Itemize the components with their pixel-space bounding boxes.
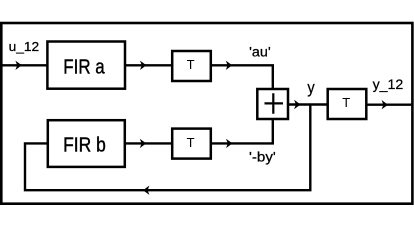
summer plus sign	[265, 93, 284, 114]
block T3 delay	[328, 89, 367, 119]
block T2 delay	[172, 129, 211, 159]
wire u input	[2, 64, 47, 66]
wire FIR b to T2	[125, 142, 172, 144]
block T1 delay	[172, 51, 211, 81]
svg-text:'au': 'au'	[249, 45, 271, 60]
wire FIR a to T1	[125, 64, 172, 66]
wire T2 to summer bottom	[211, 119, 273, 143]
feedback wire y to FIR b	[25, 105, 310, 191]
wire T1 to summer top	[211, 65, 273, 89]
arrow on T2 to summer wire	[226, 139, 232, 148]
svg-text:T: T	[187, 135, 195, 150]
summer box	[257, 89, 288, 119]
arrow on FIR a to T1 wire	[140, 61, 146, 70]
block FIR b	[48, 120, 125, 167]
arrow on FIR b to T2 wire	[140, 139, 146, 148]
outer frame	[1, 23, 412, 204]
svg-text:T: T	[342, 95, 350, 110]
svg-text:FIR a: FIR a	[63, 57, 105, 79]
block FIR a	[47, 42, 125, 89]
arrow on summer output wire	[294, 100, 300, 109]
arrow on u input wire	[15, 61, 21, 70]
svg-text:'-by': '-by'	[249, 149, 276, 165]
arrow on feedback bottom wire pointing left	[143, 186, 149, 195]
svg-text:T: T	[187, 57, 195, 72]
svg-text:y_12: y_12	[373, 76, 404, 92]
wire T3 to output	[366, 103, 411, 105]
arrow on T1 to summer wire	[226, 61, 232, 70]
wire summer to T3	[288, 103, 328, 105]
svg-text:u_12: u_12	[9, 39, 40, 54]
svg-text:y: y	[307, 78, 315, 97]
arrow on output wire	[382, 100, 388, 109]
svg-text:FIR b: FIR b	[63, 135, 106, 157]
